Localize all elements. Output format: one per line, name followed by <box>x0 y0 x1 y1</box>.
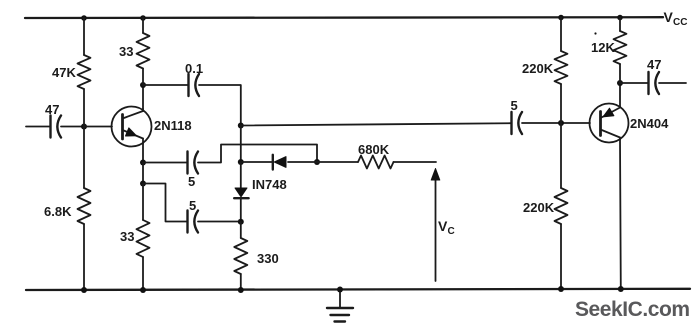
resistor 220K (lower) <box>555 123 568 289</box>
wire: input cap to base node <box>61 126 84 128</box>
wire: input lead <box>26 126 51 128</box>
capacitor 47 (output) <box>649 72 660 94</box>
svg-text:SeekIC.com: SeekIC.com <box>575 298 690 321</box>
wire: VCC supply rail (top) <box>25 16 663 19</box>
junction: mid node A <box>238 123 244 129</box>
capacitor 0.1 (feedback) <box>189 74 200 96</box>
junction: diode node <box>238 159 244 165</box>
junction: 220K upper on VCC rail <box>558 15 564 21</box>
resistor 6.8K <box>78 127 91 291</box>
resistor 220K (upper) <box>555 18 568 124</box>
junction: 12K on VCC rail <box>617 15 623 21</box>
svg-text:IN748: IN748 <box>252 177 287 192</box>
svg-text:680K: 680K <box>358 142 390 157</box>
svg-text:330: 330 <box>257 251 279 266</box>
junction: diode line right node <box>314 159 320 165</box>
svg-text:5: 5 <box>511 98 518 113</box>
svg-text:2N118: 2N118 <box>154 118 192 133</box>
svg-text:C: C <box>448 226 455 237</box>
transistor Q2 2N404 <box>590 104 629 143</box>
junction: base node of Q1 <box>81 124 87 130</box>
junction: 330 at ground rail <box>238 287 244 293</box>
resistor 680K <box>358 156 394 169</box>
svg-text:47: 47 <box>45 102 59 117</box>
resistor 330 <box>234 222 247 290</box>
VC control arrow <box>431 169 440 282</box>
wire: emitter node to output cap <box>620 82 649 84</box>
svg-text:47: 47 <box>647 57 661 72</box>
wire: Q1 collector to node <box>142 85 144 109</box>
wire: 680K to VC arrow <box>394 161 437 163</box>
capacitor 5 (upper) with wire to diode node <box>143 145 317 174</box>
wire: diode to node <box>288 161 317 163</box>
value label 12K <box>591 32 615 55</box>
wire: Q2 collector down <box>619 140 622 290</box>
svg-text:33: 33 <box>119 44 133 59</box>
junction: lower 5 cap node <box>238 219 244 225</box>
ground symbol <box>327 290 353 322</box>
wire: Q1 emitter down <box>142 144 144 163</box>
wire: emitter node down <box>142 163 144 184</box>
wire: diode node to horizontal diode <box>241 161 273 163</box>
node VCC label <box>664 9 688 28</box>
wire: collector node to 0.1 cap <box>143 84 189 86</box>
resistor 47K <box>78 18 91 127</box>
junction: Q1 collector node <box>140 82 146 88</box>
wire: Q2 emitter up <box>619 83 621 107</box>
wire: output lead <box>659 82 686 84</box>
diode (horizontal, cathode left) <box>273 155 286 170</box>
junction: 33 branch on VCC rail <box>140 15 146 21</box>
capacitor 5 (interstage) <box>512 112 523 134</box>
capacitor 5 (lower) with L wire <box>143 184 241 233</box>
svg-text:2N404: 2N404 <box>630 116 669 131</box>
svg-text:6.8K: 6.8K <box>44 204 72 219</box>
junction: emitter node (lower 5 cap tap) <box>140 181 146 187</box>
junction: Q2 emitter node <box>617 80 623 86</box>
junction: emitter node (upper 5 cap tap) <box>140 160 146 166</box>
svg-text:0.1: 0.1 <box>185 61 203 76</box>
svg-text:220K: 220K <box>523 200 555 215</box>
junction: Q2 collector at ground rail <box>618 286 624 292</box>
svg-text:12K: 12K <box>591 40 615 55</box>
resistor 12K <box>614 18 627 84</box>
node VC label <box>438 218 455 237</box>
wire: mid node down to diode node <box>240 126 242 163</box>
junction: 220K lower at ground rail <box>558 286 564 292</box>
diode 1N748 (vertical) <box>234 162 248 222</box>
svg-text:5: 5 <box>188 174 195 189</box>
svg-text:220K: 220K <box>522 61 554 76</box>
wire: 0.1 cap to mid node (corner) <box>199 85 241 126</box>
junction: 47K branch on VCC rail <box>81 15 87 21</box>
junction: emitter branch at ground rail <box>140 287 146 293</box>
svg-text:V: V <box>438 218 448 234</box>
svg-text:33: 33 <box>120 229 134 244</box>
svg-text:47K: 47K <box>52 65 76 80</box>
junction: Q2 base node <box>558 120 564 126</box>
junction: 6.8K at ground rail <box>81 287 87 293</box>
svg-text:CC: CC <box>673 17 687 28</box>
svg-text:5: 5 <box>189 198 196 213</box>
resistor 33 (emitter) <box>137 184 150 291</box>
wire: coupling line to Q2 stage <box>241 123 512 125</box>
transistor Q1 2N118 <box>112 107 152 147</box>
wire: ground rail (bottom) <box>26 289 690 290</box>
wire: node to 680K <box>317 161 358 163</box>
wire: cap to Q2 base <box>522 122 590 124</box>
wire: base of Q1 <box>84 126 112 128</box>
svg-text:V: V <box>664 9 674 25</box>
junction: ground symbol at rail <box>337 287 343 293</box>
resistor 33 (collector load) <box>137 18 150 85</box>
capacitor 47 (input) <box>51 116 62 138</box>
